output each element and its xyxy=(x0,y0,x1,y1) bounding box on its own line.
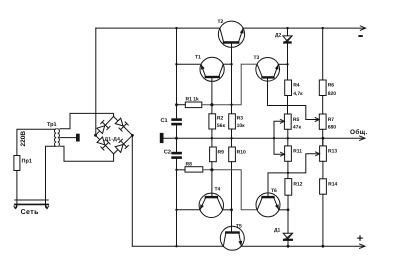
resistor R13 trimmer xyxy=(320,146,327,161)
wire mains left vertical xyxy=(17,129,56,206)
node minus label xyxy=(358,35,362,37)
transformer Tr1 primary winding xyxy=(55,129,57,147)
wire T6 collector to R12 column xyxy=(279,209,288,211)
svg-text:R10: R10 xyxy=(237,150,246,156)
svg-text:R1 1k: R1 1k xyxy=(186,97,200,103)
svg-text:220В: 220В xyxy=(20,131,27,147)
svg-text:R12: R12 xyxy=(293,182,302,188)
resistor R6 xyxy=(319,80,326,96)
wire R11 top lead xyxy=(287,138,289,146)
wire R5 bottom lead xyxy=(287,129,289,138)
resistor R12 xyxy=(285,179,292,196)
svg-text:47к: 47к xyxy=(293,125,302,131)
resistor R3 xyxy=(229,114,236,129)
capacitor C2 xyxy=(171,152,182,155)
wire T4 emitter wire xyxy=(177,209,201,211)
svg-text:Общ.: Общ. xyxy=(350,129,368,136)
wire T1 emitter wire xyxy=(177,63,201,65)
wire column x=176.5 lower (C2 to bottom rail) xyxy=(176,159,178,246)
fuse Pr1 xyxy=(14,156,20,171)
wire T1 base column xyxy=(211,78,213,114)
wire minus riser from bridge left corner xyxy=(95,28,97,135)
wire top rail right segment xyxy=(243,27,365,29)
wire plus drop from bridge right corner xyxy=(131,135,133,246)
wire secondary bottom to bridge bottom xyxy=(60,146,114,161)
wire top rail left segment xyxy=(96,27,220,29)
wire R2 bottom lead xyxy=(211,129,213,147)
wire R12 bottom lead xyxy=(287,195,289,233)
node amp common terminal bar xyxy=(160,133,164,143)
diode D2 zener xyxy=(275,28,292,64)
svg-text:R9: R9 xyxy=(218,150,225,156)
resistor R2 xyxy=(209,114,216,129)
svg-text:Т1: Т1 xyxy=(195,55,201,61)
wire T2 base column xyxy=(231,44,233,114)
resistor R7 trimmer xyxy=(319,114,326,129)
svg-text:R7: R7 xyxy=(328,117,335,123)
wire R8 left lead xyxy=(177,169,186,171)
transistor T4 xyxy=(199,187,223,218)
resistor R4 xyxy=(285,80,292,96)
svg-text:R14: R14 xyxy=(328,182,337,188)
svg-text:Тр1: Тр1 xyxy=(47,122,57,128)
svg-text:Т5: Т5 xyxy=(236,224,242,230)
svg-text:Пр1: Пр1 xyxy=(22,159,32,165)
svg-text:R3: R3 xyxy=(237,116,244,122)
wire mains panel lines xyxy=(15,199,48,201)
diode D1 zener xyxy=(274,228,293,247)
transistor T2 xyxy=(218,19,245,47)
wire R1 left lead xyxy=(177,104,186,106)
diode bridge bottom-left xyxy=(97,137,110,150)
resistor R14 xyxy=(320,179,327,194)
wire bottom rail right segment xyxy=(242,245,365,247)
wire R6 bottom to R7 top xyxy=(322,96,324,115)
node minus terminal arrow xyxy=(360,26,365,30)
diode bridge bottom-right xyxy=(115,139,128,152)
wire R1 right lead to T3 riser xyxy=(202,64,241,105)
svg-text:R5: R5 xyxy=(293,117,300,123)
wire R13 top lead xyxy=(322,138,324,146)
wire R5 wiper from common xyxy=(274,121,285,154)
wire column x=176.5 middle (C1 to C2) xyxy=(176,125,178,151)
resistor R5 trimmer xyxy=(284,114,291,129)
wire R8 right lead to T6 xyxy=(203,170,257,210)
wire R13 bottom to R14 top xyxy=(322,161,324,179)
svg-text:R4: R4 xyxy=(293,83,300,89)
resistor R9 xyxy=(210,147,217,162)
wire secondary top to bridge top xyxy=(60,113,114,128)
svg-text:680: 680 xyxy=(328,125,337,131)
wire T4 collector to T5 base column xyxy=(223,209,231,211)
svg-text:4,7к: 4,7к xyxy=(293,91,303,97)
resistor R11 trimmer xyxy=(285,146,292,161)
svg-text:Д1-Д4: Д1-Д4 xyxy=(105,136,121,142)
resistor R10 xyxy=(229,147,236,162)
wire center tap to PSU terminal xyxy=(60,137,76,139)
transistor T6 xyxy=(256,188,280,217)
svg-text:C2: C2 xyxy=(164,150,171,156)
node junction dots xyxy=(94,27,324,248)
transformer Tr1 secondary winding xyxy=(58,129,60,147)
wire T3 left lead wire xyxy=(241,63,256,65)
wire column x=176.5 upper (rail to C1) xyxy=(176,28,178,118)
wire T6 base to R13 wiper xyxy=(268,154,320,196)
svg-text:R2: R2 xyxy=(217,116,224,122)
svg-text:Сеть: Сеть xyxy=(21,209,39,216)
wire R4 top lead xyxy=(287,64,289,80)
wire R7 bottom lead xyxy=(322,129,324,146)
node mains arrow left xyxy=(14,205,17,209)
diode bridge top-right xyxy=(115,118,128,131)
wire bottom rail left segment xyxy=(132,245,223,247)
node PSU common terminal bar xyxy=(76,134,80,142)
resistor R1 xyxy=(185,102,202,108)
transistor T1 xyxy=(195,55,224,82)
svg-text:R6: R6 xyxy=(328,83,335,89)
wire mains right vertical xyxy=(46,146,56,206)
transistor T5 xyxy=(220,224,244,251)
wire R10 bottom lead to T5 base xyxy=(231,162,233,232)
node mains arrow right xyxy=(45,205,48,209)
node plus terminal arrow xyxy=(360,244,365,248)
svg-text:Т3: Т3 xyxy=(254,55,260,61)
wire T3 base to R7 wiper xyxy=(268,79,320,120)
svg-text:Т6: Т6 xyxy=(271,188,277,194)
svg-text:R11: R11 xyxy=(293,149,302,155)
svg-text:10к: 10к xyxy=(237,123,246,129)
svg-text:C1: C1 xyxy=(161,118,168,124)
node plus label xyxy=(358,236,362,240)
svg-text:Т2: Т2 xyxy=(218,19,224,25)
diode bridge top-left xyxy=(97,120,110,133)
svg-text:R8: R8 xyxy=(186,162,193,168)
svg-text:56к: 56к xyxy=(217,123,226,129)
svg-text:Д1: Д1 xyxy=(274,228,281,234)
svg-text:Д2: Д2 xyxy=(275,33,282,39)
svg-text:820: 820 xyxy=(328,91,337,97)
capacitor C1 xyxy=(171,118,182,121)
wire R4 bottom to R5 top xyxy=(287,96,289,115)
svg-text:Т4: Т4 xyxy=(215,187,221,193)
svg-text:R13: R13 xyxy=(328,149,337,155)
wire R9 bottom lead to T4 base xyxy=(211,162,213,196)
wire T3 collector wire xyxy=(278,63,287,65)
wire R6 top lead xyxy=(322,28,324,80)
wire T1 collector to T2 base column xyxy=(224,63,232,65)
transistor T3 xyxy=(254,55,280,81)
wire R3 bottom lead xyxy=(231,129,233,147)
wire common rail xyxy=(163,137,364,139)
node common rail arrow xyxy=(360,136,365,140)
wire R14 bottom lead xyxy=(322,194,324,246)
wire R11 bottom to R12 top xyxy=(287,161,289,178)
diode bridge D1-D4 diamond xyxy=(96,117,133,154)
resistor R8 xyxy=(185,167,203,172)
